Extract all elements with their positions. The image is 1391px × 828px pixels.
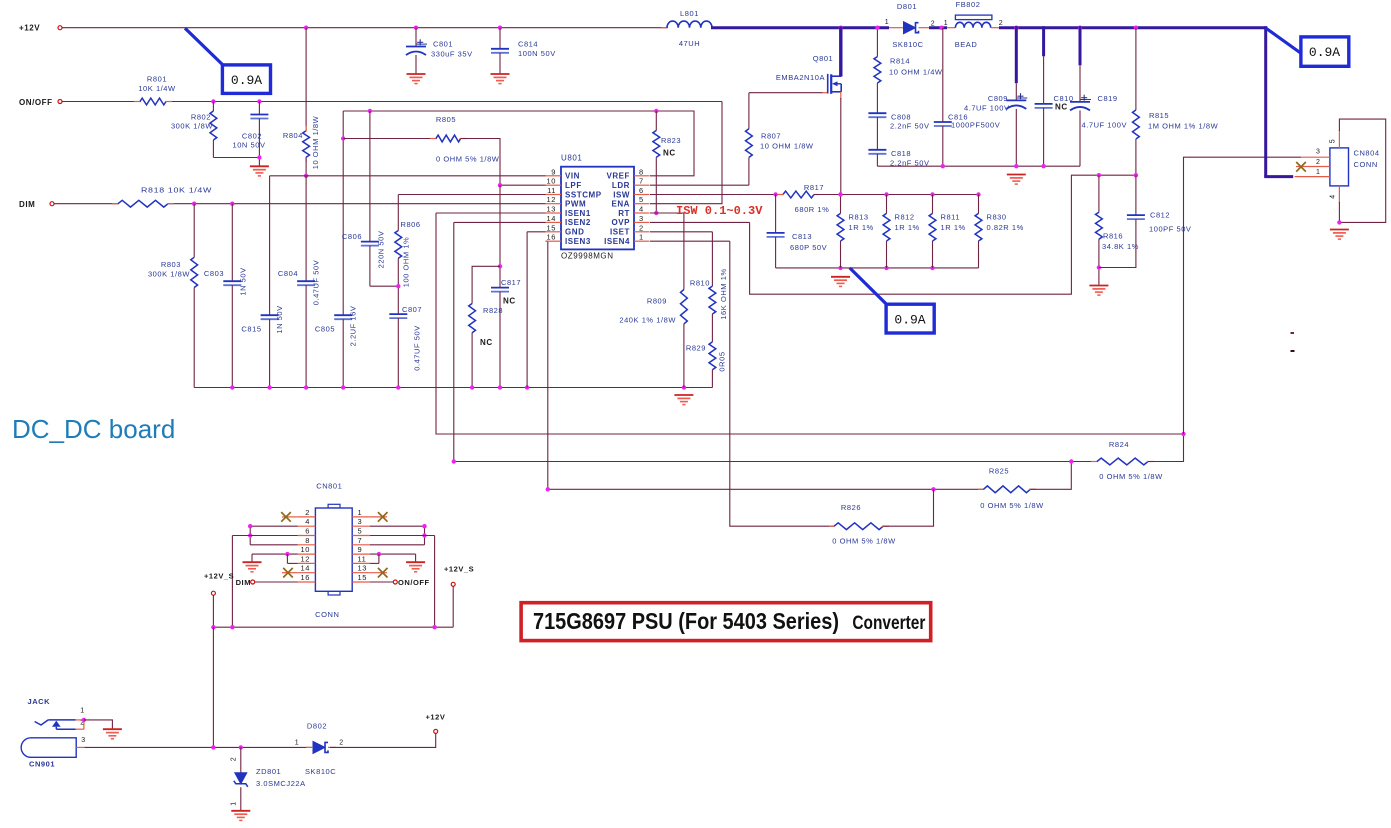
junction rail-C815 xyxy=(267,385,271,389)
svg-text:R818 10K 1/4W: R818 10K 1/4W xyxy=(141,186,212,195)
junction R806-C806 xyxy=(396,284,400,288)
ground sense rail xyxy=(831,277,850,287)
svg-text:16K OHM 1%: 16K OHM 1% xyxy=(719,268,728,319)
svg-text:6: 6 xyxy=(305,527,310,536)
ground CN801 right xyxy=(406,562,425,572)
resistor R802 xyxy=(171,102,217,158)
resistor R823 xyxy=(653,111,681,213)
svg-text:5: 5 xyxy=(1330,139,1337,143)
svg-text:OZ9998MGN: OZ9998MGN xyxy=(561,252,614,261)
op-amp U801 pins xyxy=(546,167,650,246)
svg-text:R824: R824 xyxy=(1109,440,1129,449)
svg-text:ISW 0.1~0.3V: ISW 0.1~0.3V xyxy=(676,204,763,218)
junction ON/OFF-R802 xyxy=(211,99,215,103)
junction ISEN3 corner xyxy=(546,487,550,491)
resistor R829 xyxy=(686,342,727,388)
zener ZD801 xyxy=(231,747,306,810)
wire LDR row xyxy=(650,184,749,186)
svg-text:0.47UF 50V: 0.47UF 50V xyxy=(311,260,320,306)
svg-text:10 OHM 1/8W: 10 OHM 1/8W xyxy=(311,115,320,169)
wire CN801 pin9 right xyxy=(370,554,416,562)
wire output ground rail xyxy=(877,165,1080,167)
junction rail-R809 xyxy=(682,385,686,389)
junction C817-R828 xyxy=(498,264,502,268)
svg-text:9: 9 xyxy=(358,545,363,554)
junction top-R813 xyxy=(838,192,842,196)
svg-text:R828: R828 xyxy=(483,306,503,315)
title box 715G8697 xyxy=(521,603,931,641)
svg-text:ISW: ISW xyxy=(613,190,630,199)
junction rail-C804 xyxy=(304,385,308,389)
svg-text:GND: GND xyxy=(565,228,584,237)
svg-text:+12V_S: +12V_S xyxy=(444,565,474,574)
svg-text:R809: R809 xyxy=(647,297,667,306)
junction bus-C809 xyxy=(1014,26,1018,30)
svg-text:7: 7 xyxy=(639,177,644,186)
capacitor C803 xyxy=(204,204,247,388)
junction jack pins xyxy=(82,718,86,722)
svg-text:SK810C: SK810C xyxy=(305,767,336,776)
junction rail-C817 xyxy=(498,385,502,389)
svg-text:R815: R815 xyxy=(1149,111,1169,120)
svg-text:240K 1% 1/8W: 240K 1% 1/8W xyxy=(619,316,676,325)
svg-text:C814: C814 xyxy=(518,40,538,49)
wire DIM line xyxy=(54,203,546,205)
junction top-R830 xyxy=(976,192,980,196)
svg-text:5: 5 xyxy=(639,195,644,204)
junction R804-VIN xyxy=(304,174,308,178)
junction top-R811 xyxy=(930,192,934,196)
svg-text:4.7UF 100V: 4.7UF 100V xyxy=(1082,121,1128,130)
wire CN801 pin5 right xyxy=(370,536,435,628)
junction +12V/C814 xyxy=(498,26,502,30)
op-amp U801 body xyxy=(561,154,634,261)
svg-text:5: 5 xyxy=(358,527,363,536)
svg-text:1R 1%: 1R 1% xyxy=(895,223,920,232)
svg-text:2: 2 xyxy=(1316,159,1320,166)
capacitor C818 xyxy=(868,149,929,168)
ground ZD801 xyxy=(231,811,250,821)
junction LPF-R805 xyxy=(498,183,502,187)
wire ISET net xyxy=(650,232,712,286)
node +12V bottom xyxy=(426,713,446,734)
capacitor C802 xyxy=(232,102,268,167)
current label 0.9A flag (right) xyxy=(1266,28,1349,66)
svg-text:1: 1 xyxy=(639,233,644,242)
svg-text:R812: R812 xyxy=(895,213,915,222)
junction bus-R815 xyxy=(1134,26,1138,30)
capacitor C814 xyxy=(491,28,556,74)
wire CN804 pin4 xyxy=(1330,186,1340,223)
svg-text:2: 2 xyxy=(305,508,310,517)
svg-text:3: 3 xyxy=(1316,149,1320,156)
junction CN801 p5 xyxy=(422,533,426,537)
svg-text:1R 1%: 1R 1% xyxy=(849,223,874,232)
svg-text:2: 2 xyxy=(931,21,935,28)
wire CN801 pin6 left xyxy=(232,536,297,628)
svg-text:220N 50V: 220N 50V xyxy=(376,231,385,269)
node +12V_S right xyxy=(444,565,474,628)
svg-text:LDR: LDR xyxy=(612,181,630,190)
junction bot-R813 xyxy=(838,266,842,270)
svg-text:R807: R807 xyxy=(761,132,781,141)
capacitor C810 xyxy=(1035,26,1074,166)
wire CN801 pin4 left xyxy=(250,526,298,545)
svg-text:C815: C815 xyxy=(241,325,261,334)
svg-text:10 OHM 1/8W: 10 OHM 1/8W xyxy=(760,142,814,151)
svg-text:3.0SMCJ22A: 3.0SMCJ22A xyxy=(256,779,306,788)
svg-text:9: 9 xyxy=(551,167,556,176)
jack J901 symbol xyxy=(35,708,85,730)
capacitor C807 xyxy=(389,305,422,388)
svg-text:10N 50V: 10N 50V xyxy=(232,141,265,150)
svg-text:1: 1 xyxy=(885,19,889,26)
junction rail +12V_S a xyxy=(211,625,215,629)
wire CN801 pin11 right xyxy=(370,554,379,563)
svg-text:DC_DC board: DC_DC board xyxy=(12,414,175,444)
wire CN804 pin1 stub xyxy=(1295,169,1330,177)
svg-text:C818: C818 xyxy=(891,149,911,158)
svg-text:R814: R814 xyxy=(890,57,910,66)
svg-text:R825: R825 xyxy=(989,467,1009,476)
svg-text:1: 1 xyxy=(231,801,238,805)
ground C814 xyxy=(491,74,510,84)
wire OVP net xyxy=(650,175,1136,294)
connector CN801 xyxy=(315,482,352,620)
svg-text:10 OHM 1/4W: 10 OHM 1/4W xyxy=(889,68,943,77)
svg-text:14: 14 xyxy=(301,564,310,573)
svg-text:C802: C802 xyxy=(242,132,262,141)
svg-text:C819: C819 xyxy=(1098,94,1118,103)
svg-text:4.7UF 100V: 4.7UF 100V xyxy=(964,104,1010,113)
svg-text:8: 8 xyxy=(639,167,644,176)
junction rail-C809 xyxy=(1014,164,1018,168)
svg-text:NC: NC xyxy=(480,338,493,347)
connector CN901 xyxy=(21,737,86,769)
junction ISEN2 corner xyxy=(452,459,456,463)
svg-text:10: 10 xyxy=(547,177,556,186)
junction CN801 p3 xyxy=(422,524,426,528)
wire analog ground rail xyxy=(194,387,712,389)
junction CN801 p9 xyxy=(377,552,381,556)
resistor R818 xyxy=(112,186,212,208)
svg-text:15: 15 xyxy=(358,573,367,582)
transistor Q801 xyxy=(749,27,841,100)
junction DIM-C803 xyxy=(230,202,234,206)
capacitor C813 xyxy=(767,195,828,268)
wire RT net xyxy=(650,213,684,290)
svg-text:C807: C807 xyxy=(402,305,422,314)
no-connect X CN801 pin13 xyxy=(370,568,388,578)
junction DIM-R803 xyxy=(192,202,196,206)
junction rail-R828 xyxy=(470,385,474,389)
junction ISEN2-R824 xyxy=(1069,459,1073,463)
label JACK xyxy=(28,697,51,706)
junction VREF-C806 branch xyxy=(368,109,372,113)
wire sense top rail xyxy=(841,194,979,196)
connector CN804 xyxy=(1330,148,1380,186)
node +12V port xyxy=(19,24,62,33)
junction R815-OVP xyxy=(1134,173,1138,177)
svg-text:3: 3 xyxy=(81,737,85,744)
svg-text:C805: C805 xyxy=(315,325,335,334)
wire +12V_S drop xyxy=(212,627,214,747)
svg-text:1: 1 xyxy=(1316,169,1320,176)
svg-text:D802: D802 xyxy=(307,722,327,731)
wire CN804 pin3 net xyxy=(1184,157,1302,434)
svg-text:ISEN3: ISEN3 xyxy=(565,237,591,246)
node +12V_S left xyxy=(204,572,234,628)
junction rail-C807 xyxy=(396,385,400,389)
junction +12V/C801 xyxy=(414,26,418,30)
resistor R806 xyxy=(395,195,421,315)
resistor R809 xyxy=(619,290,687,388)
capacitor C817 xyxy=(491,185,521,387)
svg-text:LPF: LPF xyxy=(565,181,582,190)
svg-text:C801: C801 xyxy=(433,40,453,49)
junction RT-R823 xyxy=(654,211,658,215)
svg-text:0.9A: 0.9A xyxy=(1309,45,1340,60)
resistor R825 xyxy=(978,462,1071,511)
wire 12V bus segment A xyxy=(711,26,889,29)
wire 12V bus segment B xyxy=(929,26,947,29)
resistor R815 xyxy=(1133,28,1219,176)
resistor R813 xyxy=(837,195,874,268)
wire jack output line xyxy=(84,746,313,748)
junction rail +12V_S b xyxy=(230,625,234,629)
wire CN804 pin3 stub xyxy=(1301,149,1330,158)
diode D802 xyxy=(295,722,344,777)
svg-text:R813: R813 xyxy=(849,213,869,222)
junction CN804 pin4 gnd xyxy=(1337,220,1341,224)
junction ON/OFF-C802 xyxy=(257,99,261,103)
svg-text:0.9A: 0.9A xyxy=(231,73,262,88)
svg-text:2: 2 xyxy=(639,223,644,232)
svg-text:CN801: CN801 xyxy=(316,482,342,491)
svg-text:16: 16 xyxy=(547,233,556,242)
capacitor C804 xyxy=(278,176,320,388)
svg-text:BEAD: BEAD xyxy=(955,40,978,49)
svg-text:EMBA2N10A: EMBA2N10A xyxy=(776,73,825,82)
wire ISEN1 net xyxy=(436,213,1184,434)
svg-text:R829: R829 xyxy=(686,344,706,353)
svg-text:R830: R830 xyxy=(987,213,1007,222)
capacitor C812 xyxy=(1099,175,1192,267)
ferrite bead FB802 xyxy=(944,0,1003,49)
junction rail-C803 xyxy=(230,385,234,389)
svg-text:14: 14 xyxy=(547,214,556,223)
current label 0.9A flag (middle) xyxy=(850,268,934,333)
svg-text:ISEN1: ISEN1 xyxy=(565,209,591,218)
svg-text:C806: C806 xyxy=(342,232,362,241)
ground CN801 left xyxy=(243,562,262,572)
current label 0.9A flag (left) xyxy=(185,28,271,93)
junction bot-R812 xyxy=(884,266,888,270)
svg-text:SSTCMP: SSTCMP xyxy=(565,190,602,199)
resistor R801 xyxy=(134,75,176,105)
svg-text:1R 1%: 1R 1% xyxy=(941,223,966,232)
svg-text:C812: C812 xyxy=(1150,211,1170,220)
svg-text:0 OHM 5% 1/8W: 0 OHM 5% 1/8W xyxy=(436,155,500,164)
svg-text:0.9A: 0.9A xyxy=(894,313,925,328)
svg-text:6: 6 xyxy=(639,186,644,195)
capacitor C805 xyxy=(315,111,358,388)
junction ISW-C813 xyxy=(773,192,777,196)
svg-text:12: 12 xyxy=(301,554,310,563)
capacitor C815 xyxy=(241,176,283,388)
svg-text:R816: R816 xyxy=(1103,232,1123,241)
svg-text:100 OHM 1%: 100 OHM 1% xyxy=(402,237,411,288)
svg-text:11: 11 xyxy=(547,186,556,195)
svg-text:13: 13 xyxy=(358,564,367,573)
svg-text:C803: C803 xyxy=(204,269,224,278)
svg-text:8: 8 xyxy=(305,536,310,545)
svg-text:ON/OFF: ON/OFF xyxy=(19,98,53,107)
svg-text:D801: D801 xyxy=(897,2,917,11)
junction VREF-R823 xyxy=(654,109,658,113)
junction C802 bottom xyxy=(257,155,261,159)
stray mark 1 xyxy=(1291,332,1295,334)
wire GND pin15 xyxy=(527,232,545,388)
svg-text:0 OHM 5% 1/8W: 0 OHM 5% 1/8W xyxy=(980,501,1044,510)
inductor L801 xyxy=(661,9,712,48)
svg-text:15: 15 xyxy=(547,223,556,232)
junction bus-Q801 xyxy=(839,26,843,30)
svg-text:10: 10 xyxy=(301,545,310,554)
svg-text:0 OHM 5% 1/8W: 0 OHM 5% 1/8W xyxy=(832,537,896,546)
junction bus-C816 xyxy=(939,26,943,30)
junction jackline +12V_S xyxy=(211,745,215,749)
node ON/OFF at CN801 xyxy=(370,578,430,587)
junction R816-OVP xyxy=(1097,173,1101,177)
junction rail-C805 xyxy=(341,385,345,389)
resistor R805 xyxy=(343,115,500,185)
junction CN801 p6 xyxy=(248,533,252,537)
svg-text:+12V_S: +12V_S xyxy=(204,572,234,581)
svg-text:R806: R806 xyxy=(401,220,421,229)
ground C801 xyxy=(407,74,426,84)
resistor R810 xyxy=(690,268,728,342)
svg-text:300K 1/8W: 300K 1/8W xyxy=(171,122,213,131)
svg-text:34.8K 1%: 34.8K 1% xyxy=(1102,242,1139,251)
svg-text:CN804: CN804 xyxy=(1354,149,1380,158)
wire +12V to L801 xyxy=(62,27,667,29)
svg-text:C813: C813 xyxy=(792,232,812,241)
svg-text:R826: R826 xyxy=(841,503,861,512)
ground C802 xyxy=(250,166,269,176)
svg-text:0.47UF 50V: 0.47UF 50V xyxy=(413,325,422,371)
svg-text:OVP: OVP xyxy=(611,218,630,227)
svg-text:ISET: ISET xyxy=(610,228,630,237)
svg-text:R801: R801 xyxy=(147,75,167,84)
svg-text:DIM: DIM xyxy=(19,200,35,209)
capacitor C801 xyxy=(406,28,473,74)
svg-text:2: 2 xyxy=(339,740,343,747)
svg-text:ISEN2: ISEN2 xyxy=(565,218,591,227)
svg-text:R811: R811 xyxy=(941,213,961,222)
junction bot-R811 xyxy=(930,266,934,270)
svg-text:R805: R805 xyxy=(436,115,456,124)
wire CN801 pin7 right xyxy=(370,544,425,546)
node ON/OFF port xyxy=(19,98,62,107)
junction R816-C812 bottom xyxy=(1097,265,1101,269)
capacitor C816 xyxy=(934,28,1000,167)
label DC_DC board xyxy=(12,414,175,444)
ground output rail xyxy=(1007,175,1026,185)
svg-text:0.82R 1%: 0.82R 1% xyxy=(987,223,1024,232)
svg-text:C817: C817 xyxy=(501,278,521,287)
svg-text:4: 4 xyxy=(639,205,644,214)
wire ENA riser xyxy=(650,102,722,204)
svg-text:0 OHM 5% 1/8W: 0 OHM 5% 1/8W xyxy=(1099,472,1163,481)
no-connect X CN801 pin2 xyxy=(281,512,298,522)
wire R802-C802 bottom xyxy=(213,157,259,159)
svg-text:1: 1 xyxy=(295,740,299,747)
junction rail-GND15 xyxy=(525,385,529,389)
wire SSTCMP row xyxy=(398,194,545,196)
svg-text:ISEN4: ISEN4 xyxy=(604,237,630,246)
wire ISW row xyxy=(650,194,783,196)
wire 12V bus segment C xyxy=(999,26,1267,29)
svg-text:NC: NC xyxy=(663,149,676,158)
svg-text:ZD801: ZD801 xyxy=(256,767,281,776)
svg-text:1000PF500V: 1000PF500V xyxy=(951,121,1000,130)
svg-text:13: 13 xyxy=(547,205,556,214)
ground CN804 xyxy=(1330,230,1349,240)
svg-text:PWM: PWM xyxy=(565,200,586,209)
ground R809 xyxy=(674,395,693,405)
wire CN801 pin8 left xyxy=(250,544,298,546)
svg-text:CN901: CN901 xyxy=(29,760,55,769)
resistor R824 xyxy=(1091,434,1184,481)
wire jack pin1 to gnd xyxy=(84,720,113,729)
svg-text:330uF 35V: 330uF 35V xyxy=(431,50,473,59)
wire to +12V terminal xyxy=(330,733,436,747)
svg-text:NC: NC xyxy=(1055,103,1068,112)
stray mark 2 xyxy=(1291,350,1295,352)
svg-text:680P 50V: 680P 50V xyxy=(790,243,827,252)
svg-text:R817: R817 xyxy=(804,183,824,192)
junction source-sense xyxy=(838,192,842,196)
junction CN801 p4 xyxy=(248,524,252,528)
svg-text:C809: C809 xyxy=(988,94,1008,103)
no-connect X CN801 pin14 xyxy=(282,568,298,578)
junction ISEN1-CN804 line xyxy=(1181,432,1185,436)
junction jackline ZD801 xyxy=(239,745,243,749)
svg-text:DIM: DIM xyxy=(236,578,251,587)
svg-text:U801: U801 xyxy=(561,154,582,163)
svg-text:ON/OFF: ON/OFF xyxy=(398,578,430,587)
svg-text:R823: R823 xyxy=(661,136,681,145)
wire VIN row xyxy=(270,175,546,177)
junction bus-R814 xyxy=(875,26,879,30)
svg-text:FB802: FB802 xyxy=(956,0,981,9)
resistor R826 xyxy=(829,489,934,545)
wire LPF row xyxy=(500,184,546,186)
svg-text:1: 1 xyxy=(80,708,84,715)
wire sense bottom rail xyxy=(776,267,979,269)
svg-text:2.2nF 50V: 2.2nF 50V xyxy=(890,122,930,131)
wire ON/OFF line xyxy=(62,101,722,103)
capacitor C806 xyxy=(342,111,398,286)
no-connect X pin2 xyxy=(1296,162,1306,172)
svg-text:7: 7 xyxy=(358,536,363,545)
resistor R803 xyxy=(148,204,198,388)
svg-text:100N 50V: 100N 50V xyxy=(518,49,556,58)
svg-text:680R 1%: 680R 1% xyxy=(795,205,830,214)
svg-text:RT: RT xyxy=(618,209,630,218)
svg-text:JACK: JACK xyxy=(28,697,51,706)
